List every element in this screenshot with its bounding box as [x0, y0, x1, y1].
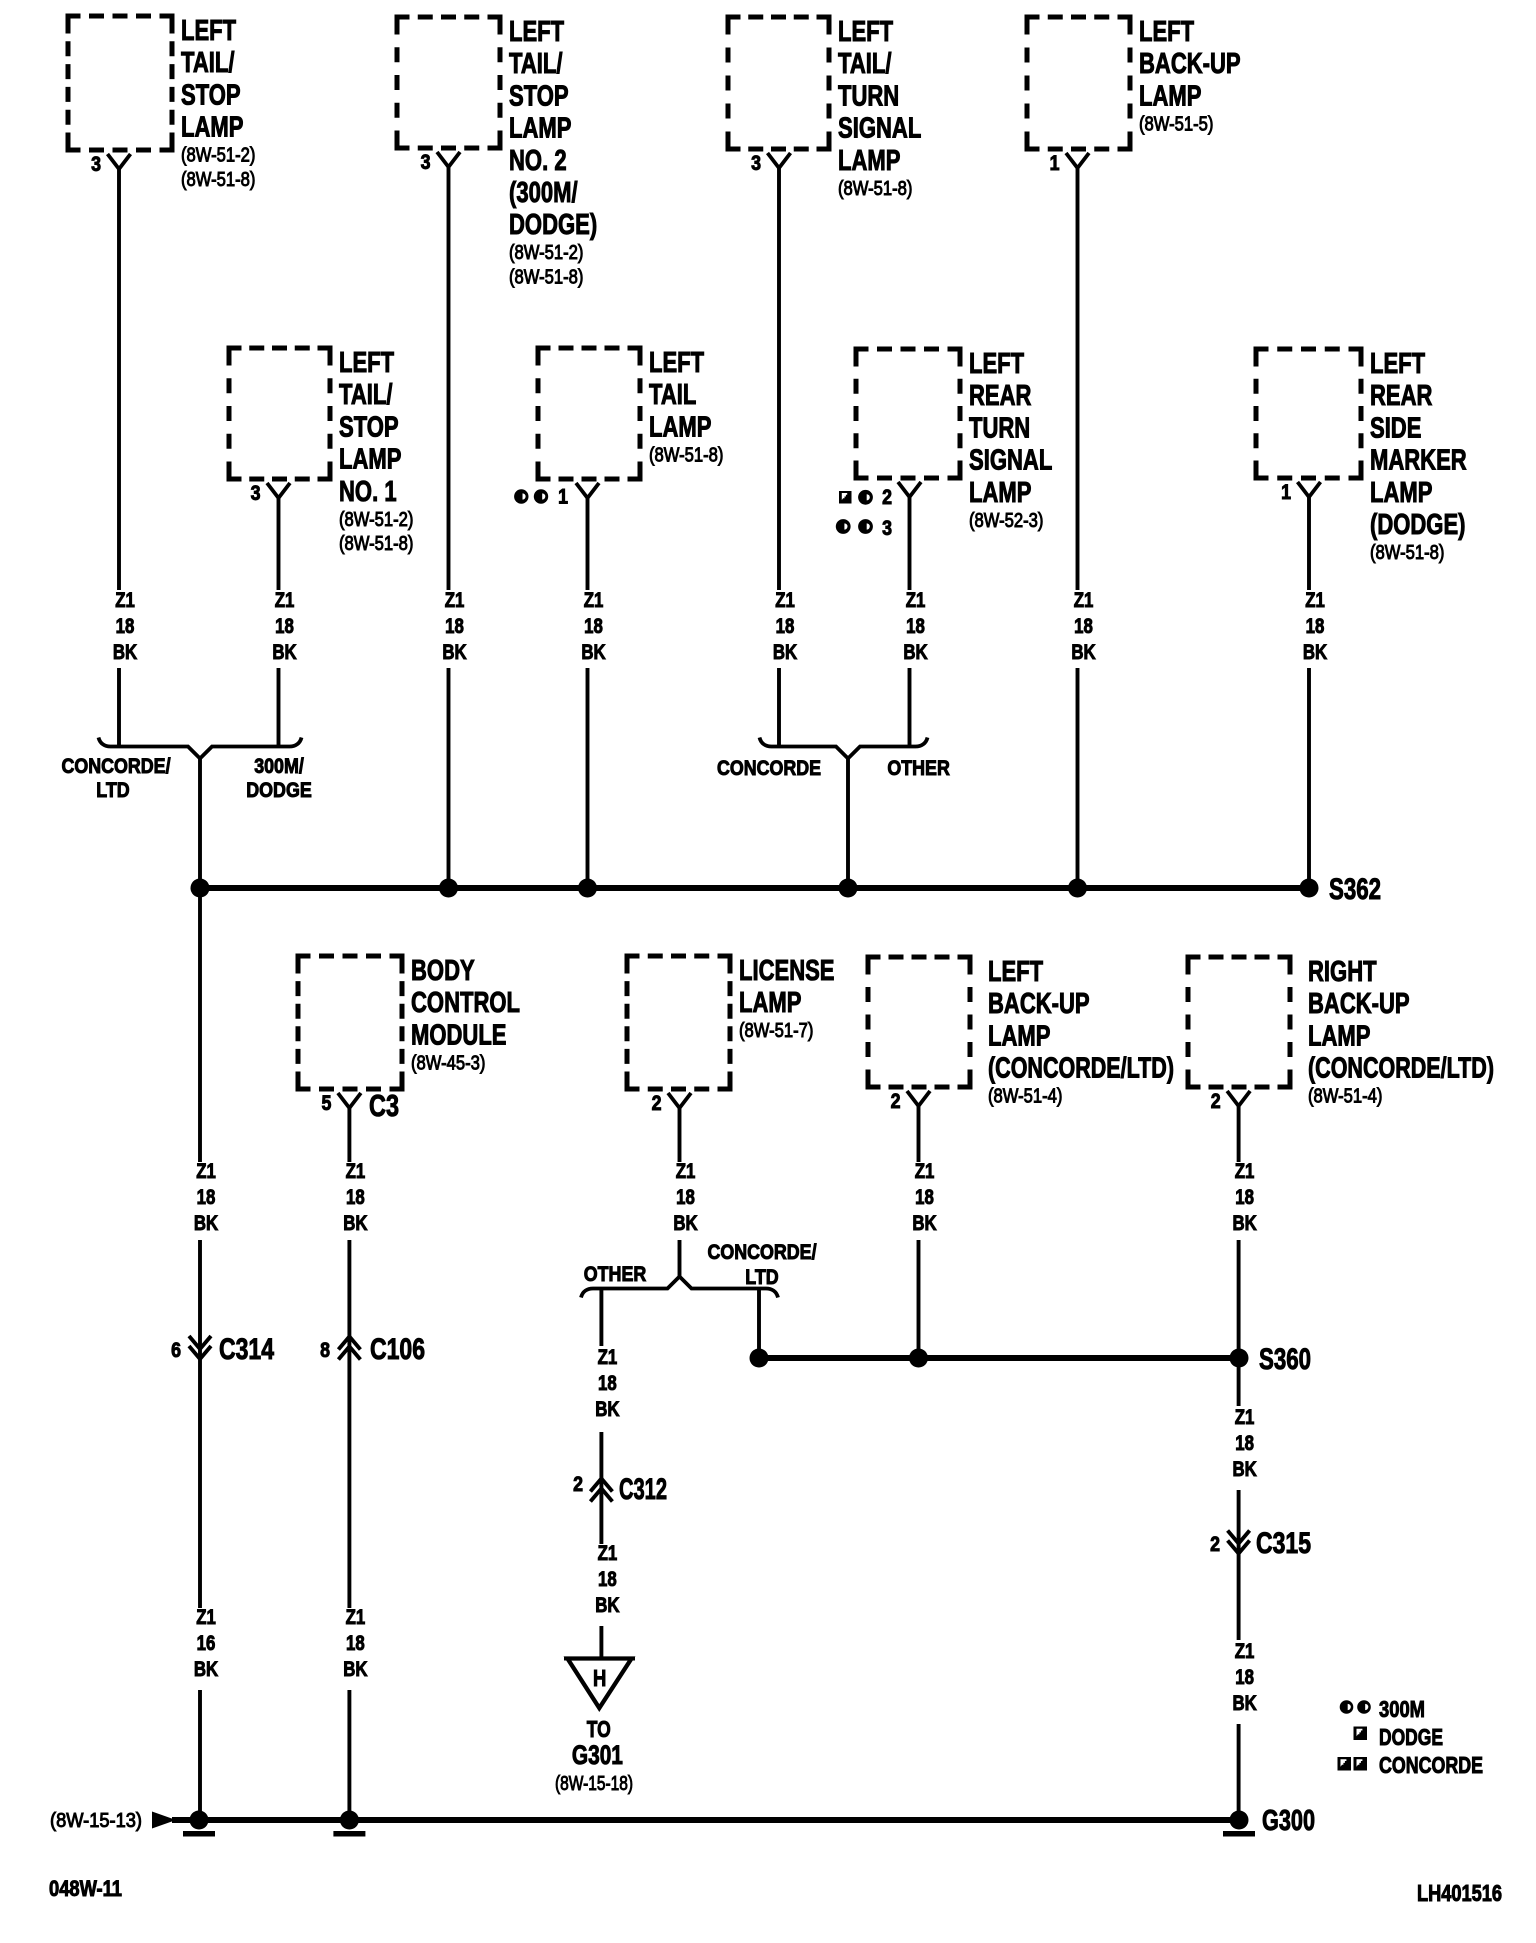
svg-text:(300M/: (300M/ [509, 177, 578, 209]
svg-text:LAMP: LAMP [1370, 477, 1432, 509]
svg-text:8: 8 [320, 1339, 330, 1362]
wire Z1 18 BK from LEFT REAR SIDE MARKER LAMP pin 1 [1303, 497, 1327, 888]
svg-text:DODGE: DODGE [246, 779, 312, 802]
svg-text:BK: BK [1232, 1458, 1256, 1481]
svg-text:C312: C312 [619, 1473, 667, 1506]
legend: 300M icons [1340, 1696, 1425, 1722]
svg-text:BK: BK [1232, 1692, 1256, 1715]
splice bus S360 [750, 1343, 1312, 1376]
svg-text:BK: BK [673, 1212, 697, 1235]
svg-text:Z1: Z1 [346, 1606, 366, 1629]
connector box LEFT TAIL LAMP [514, 347, 723, 509]
svg-text:18: 18 [1235, 1432, 1254, 1455]
svg-text:G301: G301 [572, 1740, 623, 1770]
svg-text:2: 2 [882, 486, 892, 509]
bottom ground bus to G300 [50, 1810, 1239, 1832]
svg-text:BK: BK [903, 641, 927, 664]
svg-text:BK: BK [581, 641, 605, 664]
svg-text:LAMP: LAMP [1139, 80, 1201, 112]
svg-text:3: 3 [91, 153, 101, 176]
wire Z1 18 BK from LEFT TAIL/STOP LAMP pin 3 [113, 169, 137, 746]
connector box LEFT REAR SIDE MARKER LAMP (DODGE) [1254, 348, 1467, 564]
svg-text:Z1: Z1 [275, 589, 295, 612]
svg-text:H: H [593, 1665, 606, 1691]
svg-text:18: 18 [197, 1186, 216, 1209]
svg-text:Z1: Z1 [915, 1160, 935, 1183]
svg-text:18: 18 [116, 615, 135, 638]
svg-text:BK: BK [194, 1658, 218, 1681]
svg-text:Z1: Z1 [196, 1160, 216, 1183]
connector box LICENSE LAMP [625, 955, 835, 1115]
svg-text:3: 3 [882, 517, 892, 540]
splice bus S362 [191, 873, 1382, 906]
svg-text:LAMP: LAMP [181, 112, 243, 144]
svg-text:Z1: Z1 [1074, 589, 1094, 612]
in-line connector C315 pin 2 [1210, 1527, 1311, 1560]
svg-text:(8W-51-7): (8W-51-7) [739, 1020, 813, 1042]
svg-text:300M: 300M [1379, 1696, 1425, 1722]
ground splice dot BCM branch [333, 1811, 365, 1837]
svg-text:18: 18 [445, 615, 464, 638]
svg-text:1: 1 [558, 486, 568, 509]
svg-text:LEFT: LEFT [1139, 16, 1194, 48]
svg-text:18: 18 [598, 1372, 617, 1395]
svg-text:LAMP: LAMP [1308, 1020, 1370, 1052]
svg-text:Z1: Z1 [1235, 1406, 1255, 1429]
svg-text:TAIL/: TAIL/ [509, 48, 563, 80]
svg-text:2: 2 [1210, 1533, 1220, 1556]
svg-text:2: 2 [1211, 1090, 1221, 1113]
svg-text:(8W-51-2): (8W-51-2) [509, 242, 583, 264]
svg-text:LH401516: LH401516 [1417, 1880, 1502, 1906]
svg-text:BK: BK [194, 1212, 218, 1235]
svg-text:TAIL: TAIL [649, 379, 696, 411]
svg-text:Z1: Z1 [676, 1160, 696, 1183]
svg-text:Z1: Z1 [598, 1346, 618, 1369]
svg-text:C106: C106 [370, 1333, 425, 1366]
svg-text:(8W-51-5): (8W-51-5) [1139, 113, 1213, 135]
svg-text:1: 1 [1050, 152, 1060, 175]
svg-text:BK: BK [113, 641, 137, 664]
brace merge CONCORDE + OTHER [717, 738, 950, 781]
svg-text:REAR: REAR [1370, 380, 1432, 412]
ground symbol H (to G301) [555, 1659, 635, 1796]
svg-text:(8W-52-3): (8W-52-3) [969, 510, 1043, 532]
svg-text:BK: BK [272, 641, 296, 664]
svg-text:(8W-51-8): (8W-51-8) [509, 267, 583, 289]
wire Z1 16 BK to ground G300 [194, 1352, 218, 1820]
svg-text:C3: C3 [369, 1088, 399, 1123]
wire Z1 18 BK from RIGHT BACK-UP LAMP (C/L) pin 2 [1232, 1106, 1256, 1358]
svg-text:Z1: Z1 [1235, 1160, 1255, 1183]
svg-text:3: 3 [421, 151, 431, 174]
svg-text:LEFT: LEFT [339, 347, 394, 379]
svg-text:18: 18 [584, 615, 603, 638]
svg-text:LTD: LTD [96, 779, 129, 802]
svg-text:LEFT: LEFT [969, 348, 1024, 380]
svg-text:LAMP: LAMP [649, 411, 711, 443]
svg-text:NO. 1: NO. 1 [339, 476, 397, 508]
svg-text:LAMP: LAMP [969, 477, 1031, 509]
svg-text:(CONCORDE/LTD): (CONCORDE/LTD) [1308, 1053, 1494, 1085]
svg-text:Z1: Z1 [445, 589, 465, 612]
legend: CONCORDE icons [1338, 1752, 1484, 1778]
legend: DODGE icon [1354, 1724, 1444, 1750]
wire Z1 18 BK from LEFT TAIL/TURN SIGNAL LAMP pin 3 [773, 168, 797, 746]
svg-text:RIGHT: RIGHT [1308, 956, 1377, 988]
svg-text:LEFT: LEFT [838, 16, 893, 48]
svg-text:BK: BK [1303, 641, 1327, 664]
connector box LEFT TAIL/TURN SIGNAL LAMP [726, 16, 922, 200]
svg-text:BK: BK [773, 641, 797, 664]
wire Z1 18 BK from C315 to ground G300 [1232, 1544, 1256, 1820]
svg-text:BK: BK [595, 1594, 619, 1617]
svg-text:Z1: Z1 [196, 1606, 216, 1629]
svg-text:LTD: LTD [745, 1266, 778, 1289]
svg-text:(8W-51-8): (8W-51-8) [1370, 542, 1444, 564]
svg-text:BK: BK [912, 1212, 936, 1235]
connector box LEFT BACK-UP LAMP [1025, 16, 1241, 175]
svg-text:CONCORDE/: CONCORDE/ [707, 1241, 816, 1264]
svg-text:TAIL/: TAIL/ [181, 47, 235, 79]
svg-text:TO: TO [587, 1716, 611, 1742]
svg-text:1: 1 [1281, 481, 1291, 504]
svg-text:LAMP: LAMP [739, 987, 801, 1019]
svg-text:(8W-51-8): (8W-51-8) [339, 533, 413, 555]
svg-text:NO. 2: NO. 2 [509, 145, 567, 177]
svg-text:BK: BK [1071, 641, 1095, 664]
wire from brace to splice S362 [846, 758, 850, 888]
svg-text:Z1: Z1 [115, 589, 135, 612]
svg-text:(8W-15-18): (8W-15-18) [555, 1773, 633, 1795]
svg-text:BACK-UP: BACK-UP [988, 988, 1090, 1020]
svg-text:Z1: Z1 [1235, 1640, 1255, 1663]
svg-text:3: 3 [251, 482, 261, 505]
wire Z1 18 BK from LEFT TAIL/STOP LAMP NO. 1 pin 3 [272, 498, 296, 746]
svg-text:DODGE: DODGE [1379, 1724, 1443, 1750]
svg-text:18: 18 [776, 615, 795, 638]
svg-text:TAIL/: TAIL/ [838, 48, 892, 80]
svg-text:DODGE): DODGE) [509, 209, 597, 241]
svg-text:300M/: 300M/ [254, 755, 304, 778]
svg-text:LEFT: LEFT [181, 15, 236, 47]
svg-text:LAMP: LAMP [838, 145, 900, 177]
svg-text:S362: S362 [1329, 873, 1381, 906]
svg-text:LAMP: LAMP [988, 1020, 1050, 1052]
svg-text:C314: C314 [219, 1333, 274, 1366]
connector box BODY CONTROL MODULE U1 [296, 955, 521, 1123]
svg-text:(8W-51-2): (8W-51-2) [339, 509, 413, 531]
svg-text:2: 2 [652, 1092, 662, 1115]
wire Z1 18 BK from BCM pin 5 [343, 1108, 367, 1352]
svg-text:OTHER: OTHER [584, 1263, 647, 1286]
svg-text:(8W-51-2): (8W-51-2) [181, 145, 255, 167]
svg-text:18: 18 [598, 1568, 617, 1591]
svg-text:LEFT: LEFT [509, 16, 564, 48]
connector box LEFT REAR TURN SIGNAL LAMP [836, 348, 1053, 540]
svg-text:16: 16 [197, 1632, 216, 1655]
svg-text:18: 18 [275, 615, 294, 638]
svg-text:SIGNAL: SIGNAL [838, 113, 921, 145]
connector box LEFT TAIL/STOP LAMP NO. 2 [395, 16, 598, 289]
svg-text:CONTROL: CONTROL [411, 987, 520, 1019]
svg-text:(8W-51-4): (8W-51-4) [988, 1086, 1062, 1108]
svg-text:STOP: STOP [339, 411, 399, 443]
wire OTHER branch Z1 18 BK [595, 1290, 619, 1544]
wire Z1 18 BK from LEFT BACK-UP LAMP pin 1 [1071, 168, 1095, 888]
svg-text:18: 18 [346, 1632, 365, 1655]
svg-text:Z1: Z1 [906, 589, 926, 612]
connector box RIGHT BACK-UP LAMP (CONCORDE/LTD) [1186, 956, 1495, 1113]
brace merge CONCORDE/LTD + 300M/DODGE [61, 738, 311, 803]
svg-text:LAMP: LAMP [339, 444, 401, 476]
svg-text:6: 6 [171, 1339, 181, 1362]
svg-text:18: 18 [1235, 1186, 1254, 1209]
svg-text:(8W-15-13): (8W-15-13) [50, 1810, 142, 1832]
wire from brace to splice S362 [198, 758, 202, 888]
svg-text:18: 18 [1235, 1666, 1254, 1689]
wire Z1 18 BK from S360 down [1232, 1358, 1256, 1544]
svg-text:BACK-UP: BACK-UP [1139, 48, 1241, 80]
svg-text:STOP: STOP [181, 79, 241, 111]
svg-text:CONCORDE: CONCORDE [1379, 1752, 1483, 1778]
svg-text:(8W-51-4): (8W-51-4) [1308, 1086, 1382, 1108]
svg-text:3: 3 [751, 152, 761, 175]
svg-text:048W-11: 048W-11 [49, 1876, 122, 1901]
svg-text:STOP: STOP [509, 80, 569, 112]
in-line connector C314 pin 6 [171, 1333, 274, 1366]
pin 3 icons (300M circles) [836, 519, 851, 534]
wire Z1 18 BK from LEFT TAIL LAMP pin 1 [581, 498, 605, 888]
svg-text:LEFT: LEFT [649, 347, 704, 379]
svg-text:18: 18 [1074, 615, 1093, 638]
sheet number 048W-11 [49, 1876, 122, 1901]
svg-text:BK: BK [1232, 1212, 1256, 1235]
wire Z1 18 BK from C106 to ground G300 [343, 1352, 367, 1820]
svg-text:2: 2 [573, 1473, 583, 1496]
svg-text:BK: BK [442, 641, 466, 664]
svg-text:(8W-45-3): (8W-45-3) [411, 1052, 485, 1074]
svg-text:Z1: Z1 [775, 589, 795, 612]
wire Z1 18 BK from LEFT BACK-UP LAMP (C/L) pin 2 [912, 1106, 936, 1358]
in-line connector C312 pin 2 [573, 1473, 667, 1506]
svg-text:TAIL/: TAIL/ [339, 379, 393, 411]
ground splice dot left [183, 1811, 215, 1837]
svg-text:BK: BK [595, 1398, 619, 1421]
drawing number LH401516 [1417, 1880, 1502, 1906]
svg-text:Z1: Z1 [1305, 589, 1325, 612]
svg-text:CONCORDE: CONCORDE [717, 757, 821, 780]
svg-text:LAMP: LAMP [509, 113, 571, 145]
svg-text:LEFT: LEFT [988, 956, 1043, 988]
svg-text:18: 18 [915, 1186, 934, 1209]
svg-text:C315: C315 [1256, 1527, 1311, 1560]
svg-text:(8W-51-8): (8W-51-8) [181, 169, 255, 191]
connector box LEFT TAIL/STOP LAMP NO. 1 [227, 347, 414, 555]
svg-text:OTHER: OTHER [887, 757, 950, 780]
svg-text:18: 18 [906, 615, 925, 638]
svg-text:BK: BK [343, 1658, 367, 1681]
arrow from 8W-15-13 [152, 1812, 176, 1829]
pin 2 icons (DODGE square + 300M circle) [839, 491, 852, 504]
svg-text:MODULE: MODULE [411, 1019, 507, 1051]
svg-text:(DODGE): (DODGE) [1370, 509, 1466, 541]
svg-text:BK: BK [343, 1212, 367, 1235]
svg-text:SIGNAL: SIGNAL [969, 445, 1052, 477]
connector box LEFT TAIL/STOP LAMP [66, 15, 256, 191]
brace split OTHER / CONCORDE-LTD [581, 1241, 817, 1298]
wire Z1 18 BK from LEFT TAIL/STOP LAMP NO. 2 pin 3 [442, 167, 466, 888]
svg-text:REAR: REAR [969, 380, 1031, 412]
svg-text:TURN: TURN [838, 80, 899, 112]
svg-text:18: 18 [1306, 615, 1325, 638]
svg-text:(CONCORDE/LTD): (CONCORDE/LTD) [988, 1053, 1174, 1085]
connector box LEFT BACK-UP LAMP (CONCORDE/LTD) [866, 956, 1175, 1113]
svg-text:Z1: Z1 [598, 1542, 618, 1565]
wire Z1 18 BK from LEFT REAR TURN SIGNAL LAMP [903, 497, 927, 746]
wire Z1 18 BK from LICENSE LAMP pin 2 [673, 1108, 697, 1277]
svg-text:(8W-51-8): (8W-51-8) [649, 444, 723, 466]
wire Z1 18 BK to ground G301 [595, 1542, 619, 1658]
wire CONCORDE/LTD branch to splice S360 [757, 1290, 761, 1358]
svg-text:S360: S360 [1259, 1343, 1311, 1376]
svg-text:MARKER: MARKER [1370, 445, 1467, 477]
ground G300 [1223, 1805, 1315, 1837]
svg-text:LICENSE: LICENSE [739, 955, 835, 987]
svg-text:18: 18 [676, 1186, 695, 1209]
in-line connector C106 pin 8 [320, 1333, 425, 1366]
svg-text:TURN: TURN [969, 412, 1030, 444]
svg-text:Z1: Z1 [584, 589, 604, 612]
svg-text:SIDE: SIDE [1370, 412, 1421, 444]
svg-text:(8W-51-8): (8W-51-8) [838, 178, 912, 200]
svg-text:18: 18 [346, 1186, 365, 1209]
svg-text:5: 5 [322, 1092, 332, 1115]
svg-text:G300: G300 [1262, 1805, 1315, 1837]
svg-text:2: 2 [891, 1090, 901, 1113]
svg-text:CONCORDE/: CONCORDE/ [61, 755, 170, 778]
svg-text:BACK-UP: BACK-UP [1308, 988, 1410, 1020]
svg-text:LEFT: LEFT [1370, 348, 1425, 380]
wire Z1 18 BK trunk from S362 down [194, 888, 218, 1352]
svg-text:Z1: Z1 [346, 1160, 366, 1183]
svg-text:BODY: BODY [411, 955, 475, 987]
